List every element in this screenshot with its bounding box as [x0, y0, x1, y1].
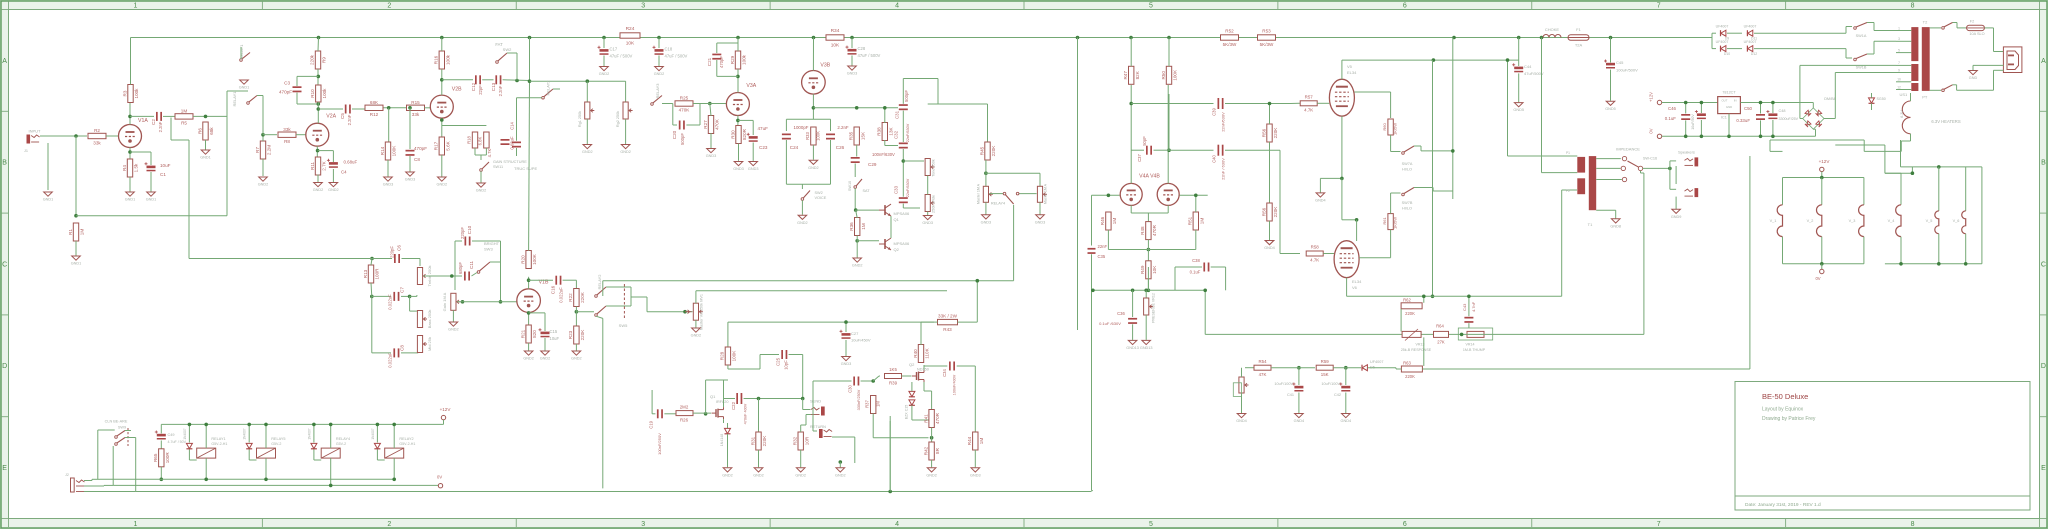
svg-text:V6: V6: [1352, 285, 1358, 290]
wire R44 drop: [974, 366, 976, 432]
svg-text:GND3: GND3: [970, 473, 981, 477]
svg-text:5: 5: [1149, 521, 1153, 528]
potentiometer MV1 MASTER VOL 1: [693, 303, 698, 320]
terminal 0V relays: [438, 484, 442, 488]
svg-text:GND2: GND2: [313, 188, 324, 192]
svg-text:R6: R6: [197, 128, 202, 134]
wire bridge minus: [1815, 129, 1817, 136]
resistor R4: [127, 159, 132, 177]
svg-text:V4A V4B: V4A V4B: [1139, 174, 1160, 180]
svg-text:220pF: 220pF: [390, 246, 395, 258]
wire impedance common to jacks: [1643, 167, 1670, 169]
svg-text:100K: 100K: [392, 145, 397, 157]
svg-text:CLN BE-ARE: CLN BE-ARE: [105, 420, 128, 424]
relay contact RELAY3: [651, 103, 654, 106]
diode D6 Q1 protection: [725, 428, 731, 433]
svg-text:R33: R33: [805, 131, 810, 139]
triode V4A: [1120, 183, 1142, 205]
svg-text:GND5: GND5: [1513, 108, 1524, 112]
svg-text:C49: C49: [168, 433, 175, 437]
potentiometer R31 GAIN2 A: [585, 102, 590, 119]
svg-text:C16: C16: [551, 285, 556, 294]
junction master wiper: [683, 310, 687, 314]
wire wiper arrow stub: [685, 311, 693, 313]
svg-text:R14: R14: [380, 146, 385, 155]
wire C8 to ground: [409, 156, 411, 172]
capacitor C11: [464, 272, 466, 281]
svg-text:100R: 100R: [375, 268, 380, 280]
wire V1A cathode down: [129, 148, 131, 160]
svg-text:220K: 220K: [991, 145, 996, 157]
svg-text:+12V: +12V: [1819, 159, 1831, 164]
resistor R65: [159, 449, 164, 467]
svg-text:R26: R26: [680, 418, 689, 423]
wire voice switch ground: [801, 200, 803, 215]
wire OT center tap B+: [1541, 38, 1543, 173]
wire send sleeve: [806, 414, 811, 416]
capacitor C26: [826, 134, 835, 136]
junction on B+ bus: [1452, 36, 1456, 40]
svg-text:Master 1M A: Master 1M A: [977, 183, 981, 204]
capacitor C20 loop: [672, 104, 674, 126]
potentiometer P4 MID: [417, 336, 422, 353]
wire relay RELAY2 to line: [393, 458, 395, 479]
svg-text:IMPEDANCE: IMPEDANCE: [1616, 147, 1640, 152]
svg-text:C33: C33: [894, 185, 899, 194]
resistor R17: [439, 137, 444, 155]
wire right rail down: [500, 252, 502, 302]
wire R33 bottom ground: [812, 145, 814, 160]
svg-text:RELAY5: RELAY5: [271, 437, 285, 441]
resistor R32: [798, 432, 803, 450]
resistor R60: [1388, 119, 1393, 135]
resistor R24 series bus: [620, 33, 640, 38]
wire bridge AC right: [1824, 118, 1835, 120]
wire NFB line to bias cluster: [1205, 333, 1461, 335]
junction treble node: [370, 257, 374, 261]
svg-text:R43: R43: [943, 327, 952, 332]
svg-text:RELAY1: RELAY1: [232, 91, 237, 107]
svg-text:4.7K: 4.7K: [1304, 108, 1313, 113]
capacitor C7: [393, 292, 395, 301]
wire R6 to ground: [205, 140, 207, 150]
wire C3 to plate node: [296, 93, 298, 104]
wire R58 to V6 grid: [1323, 253, 1334, 255]
wire B+ bus top: [131, 37, 620, 39]
wire R61 top to SW7B: [1390, 193, 1392, 214]
svg-text:A: A: [2, 58, 7, 65]
ground GND earth: [1969, 71, 1978, 75]
resistor R2: [88, 133, 106, 138]
resistor R41: [929, 410, 934, 428]
wire cathode to C4: [318, 150, 334, 152]
wire C21 bottom leg: [716, 60, 718, 76]
svg-text:R41: R41: [923, 414, 928, 423]
svg-text:R30: R30: [730, 130, 735, 139]
svg-text:SW7B: SW7B: [1402, 201, 1413, 205]
svg-text:GND2: GND2: [753, 473, 764, 477]
svg-text:GND: GND: [1726, 105, 1732, 109]
svg-text:+12V: +12V: [440, 407, 452, 412]
resistor R23: [574, 326, 579, 344]
svg-text:GND2: GND2: [808, 166, 819, 170]
svg-text:R49: R49: [1140, 265, 1145, 274]
capacitor C21 parallel loop: [717, 42, 738, 44]
svg-text:C40: C40: [1212, 154, 1217, 162]
wire R25 to V3A grid: [693, 103, 726, 105]
heater V_4: [1900, 173, 1902, 205]
capacitor C8 slope: [393, 348, 395, 357]
svg-text:4.7K: 4.7K: [487, 148, 492, 157]
junction gain wiper: [461, 300, 465, 304]
svg-text:RELAY2: RELAY2: [399, 437, 413, 441]
wire C43 bottom to NFB row: [1468, 323, 1470, 328]
wire clamp ground: [856, 241, 858, 258]
wire SW7A to screen rail: [1414, 145, 1421, 147]
svg-text:GND: GND: [1969, 76, 1978, 80]
wire F2 to IEC: [1985, 27, 1994, 29]
svg-text:330nF/250V: 330nF/250V: [857, 389, 861, 410]
wire R37 node to R39: [873, 376, 879, 381]
svg-text:47uF: 47uF: [758, 126, 769, 131]
capacitor C1 electrolytic: [147, 166, 156, 169]
regulator IC1 7812: [1718, 97, 1741, 114]
wire plate node to C5: [318, 108, 343, 110]
relay contact RELAY1 upper: [240, 59, 243, 62]
ground GND9 speakers: [1672, 209, 1681, 213]
ground GND3 R14: [384, 177, 393, 181]
svg-text:1M: 1M: [80, 229, 85, 236]
wire diode row 2: [1712, 48, 1716, 50]
resistor R26: [676, 411, 693, 416]
wire group2 bottom left: [1885, 263, 1896, 265]
connector J2 footswitch: [71, 478, 75, 492]
svg-text:R10: R10: [310, 89, 315, 98]
wire presence pot ground: [1145, 315, 1147, 340]
svg-text:Q2: Q2: [909, 362, 915, 367]
resistor R43 33K 2W: [938, 319, 958, 324]
triode V3B: [802, 71, 826, 95]
junction C8 tap: [408, 106, 412, 110]
svg-text:T2: T2: [1923, 20, 1928, 25]
svg-text:3: 3: [641, 521, 645, 528]
wire C11 left: [455, 275, 462, 277]
wire V1B cathode: [528, 312, 530, 325]
junction R6 top: [204, 115, 208, 119]
svg-text:VR14: VR14: [1466, 343, 1475, 347]
wire send tip: [802, 399, 804, 410]
svg-text:R24: R24: [626, 26, 635, 32]
ground GND2 pot1: [583, 145, 592, 149]
junction clamp bottom: [855, 239, 859, 243]
junction R37 top: [871, 379, 875, 383]
svg-text:GND3: GND3: [748, 167, 759, 171]
wire C36 feed: [1132, 290, 1134, 317]
resistor R53 5K 3W: [1258, 35, 1276, 40]
relay RELAY1 coil: [197, 448, 216, 458]
svg-text:0.022uF: 0.022uF: [559, 287, 564, 303]
switch SW-C16 IMPEDANCE: [1622, 156, 1626, 160]
terminal 0V supply: [1657, 134, 1661, 138]
svg-text:C20: C20: [672, 130, 677, 139]
junction R1 bottom rail: [74, 214, 78, 218]
svg-text:2: 2: [387, 3, 391, 10]
wire relay rail: [161, 423, 443, 425]
wire D9 D11: [1727, 32, 1742, 34]
svg-text:R65: R65: [153, 453, 158, 462]
svg-text:4: 4: [895, 521, 899, 528]
svg-text:7: 7: [1657, 3, 1661, 10]
ground GND3 master2: [1036, 215, 1045, 219]
svg-text:2.2nF: 2.2nF: [837, 125, 849, 130]
capacitor C28 electrolytic: [851, 38, 853, 49]
ground GND4 screen divider: [1265, 241, 1274, 245]
svg-text:SW1A: SW1A: [1856, 34, 1867, 38]
junction plate run OT: [1432, 58, 1436, 62]
svg-text:2.7K: 2.7K: [322, 160, 327, 170]
svg-text:P2: P2: [1566, 189, 1570, 193]
svg-text:R31: R31: [750, 436, 755, 445]
transformer T2 secondary winding: [1911, 27, 1918, 61]
svg-text:GND3: GND3: [1035, 220, 1046, 224]
svg-text:Layout by Equinox: Layout by Equinox: [1762, 407, 1804, 413]
wire R62 left leg down: [1400, 309, 1402, 332]
terminal 0V heaters: [1820, 269, 1824, 273]
ground GND2 R21: [524, 351, 533, 355]
svg-text:C41: C41: [1287, 393, 1294, 397]
resistor R31: [756, 432, 761, 450]
svg-text:GND13: GND13: [1126, 346, 1139, 350]
svg-text:1N4148: 1N4148: [720, 434, 724, 447]
wire R5 to R6 node: [193, 115, 227, 117]
svg-text:10uF/450V: 10uF/450V: [851, 338, 871, 343]
resistor R63: [1401, 366, 1422, 372]
wire NFB from impedance selector: [1640, 171, 1642, 173]
svg-text:R60: R60: [1382, 123, 1387, 131]
svg-text:Rg1 250k: Rg1 250k: [578, 111, 582, 127]
junction tone2 tap: [902, 159, 906, 163]
svg-text:GND5: GND5: [1605, 107, 1616, 111]
svg-text:UF4007: UF4007: [1744, 25, 1757, 29]
wire SW5 out to master pot: [647, 311, 685, 313]
transformer T1 primary winding: [1577, 157, 1585, 173]
svg-text:GND2: GND2: [328, 188, 339, 192]
svg-text:+12V: +12V: [1649, 92, 1654, 102]
wire mute rail vertical: [226, 91, 228, 216]
wire SW3 to right rail: [490, 261, 501, 263]
wire R46 bottom: [1107, 230, 1109, 250]
ground GND3 R44: [971, 468, 980, 472]
svg-text:R48: R48: [1140, 226, 1145, 235]
wire heater group2 bottom rail: [1896, 263, 1982, 265]
svg-text:E: E: [2, 465, 7, 472]
svg-text:0.68uF: 0.68uF: [344, 160, 358, 165]
junction V4B out: [1167, 148, 1171, 152]
svg-text:C28: C28: [858, 46, 866, 51]
junction C13 line: [515, 79, 519, 83]
wire mute rail horizontal: [76, 215, 227, 217]
wire C6 to treble pot: [402, 258, 421, 260]
svg-text:GND2: GND2: [437, 183, 448, 187]
diode D13 surge: [1869, 98, 1875, 103]
svg-text:C32: C32: [894, 130, 899, 139]
svg-text:47K: 47K: [1259, 372, 1267, 377]
wire R45 top: [987, 104, 989, 142]
wire R31 drop: [758, 399, 760, 433]
svg-text:GND4: GND4: [1236, 419, 1247, 423]
svg-text:SW-C16: SW-C16: [1643, 157, 1657, 161]
wire OT primary top: [1508, 155, 1578, 157]
wire R14 drop: [388, 108, 390, 142]
capacitor C31: [899, 104, 908, 106]
svg-text:47uF/500V: 47uF/500V: [1524, 71, 1544, 76]
ground GND4 power cathodes: [1316, 193, 1325, 197]
svg-text:BE-50 Deluxe: BE-50 Deluxe: [1762, 392, 1808, 401]
svg-text:GND3: GND3: [841, 362, 852, 366]
potentiometer P2 TREBLE: [417, 268, 422, 285]
svg-text:R50: R50: [1161, 71, 1166, 80]
svg-text:100K: 100K: [816, 131, 821, 141]
svg-text:GND2: GND2: [523, 357, 534, 361]
wire R41 to R42: [931, 428, 933, 443]
triode V3A: [726, 93, 749, 116]
junction on B+ bus: [812, 36, 816, 40]
wire gain2 pot1 ground: [586, 119, 588, 144]
pentode V6 EL34: [1334, 241, 1359, 278]
svg-text:C44: C44: [1524, 64, 1532, 69]
relay SW5 contact upper: [595, 295, 598, 298]
svg-text:1M: 1M: [861, 223, 866, 230]
potentiometer tone2: [925, 159, 930, 176]
capacitor C10: [465, 237, 467, 246]
svg-text:2.2nF: 2.2nF: [347, 114, 352, 125]
svg-text:1M: 1M: [181, 109, 188, 114]
resistor R44: [973, 432, 978, 450]
transformer T2 primary winding: [1922, 27, 1930, 91]
svg-text:GND2: GND2: [926, 473, 937, 477]
wire V6 plate run to OT: [1347, 295, 1562, 297]
wire C2 to R5: [163, 115, 175, 117]
wire R36 top: [856, 210, 858, 218]
wire V5 cathode: [1341, 116, 1343, 178]
svg-text:GND3: GND3: [405, 178, 416, 182]
wire V4A plate: [1130, 85, 1132, 183]
capacitor C33: [899, 197, 908, 199]
wire SW8A to F2: [1953, 22, 1958, 24]
svg-text:15K: 15K: [1321, 372, 1329, 377]
capacitor C13: [495, 75, 497, 84]
svg-text:33k: 33k: [283, 127, 291, 132]
wire R23 to ground: [575, 344, 577, 351]
wire heater group1 top rail: [1783, 177, 1864, 179]
triode V1A: [119, 125, 142, 148]
wire PI grid line left: [1092, 194, 1120, 196]
wire tail rail left leg: [1091, 289, 1095, 293]
wire gain pot ground: [452, 310, 454, 322]
junction supply tap: [528, 79, 532, 83]
svg-text:C10: C10: [467, 225, 472, 234]
svg-text:J2: J2: [65, 473, 69, 477]
svg-text:Gain 1M A: Gain 1M A: [442, 292, 447, 311]
wire cathode to GND4: [1320, 177, 1342, 179]
svg-text:SW3: SW3: [484, 247, 493, 252]
svg-text:1M: 1M: [1112, 218, 1117, 225]
svg-text:GND2: GND2: [795, 473, 806, 477]
svg-text:1M-B THUMP: 1M-B THUMP: [1463, 348, 1486, 352]
capacitor C36: [1128, 318, 1137, 320]
ground GND1 C1: [147, 192, 156, 196]
wire C18 ground: [658, 56, 660, 67]
svg-text:82K: 82K: [1135, 70, 1140, 79]
svg-text:4.7nF: 4.7nF: [1471, 301, 1476, 312]
resistor R6: [203, 122, 208, 140]
svg-text:470R: 470R: [1152, 224, 1157, 236]
wire gate node up: [705, 380, 707, 414]
wire bus to R16: [441, 38, 443, 52]
wire cathode to C23: [738, 119, 753, 121]
connector IEC inlet X1: [2003, 47, 2022, 73]
svg-text:Speakers: Speakers: [1678, 150, 1695, 155]
capacitor C16: [555, 276, 557, 285]
fuse F2: [1967, 25, 1985, 30]
wire relay2b left stub: [517, 97, 542, 99]
svg-text:8: 8: [1911, 521, 1915, 528]
svg-text:B: B: [2041, 160, 2046, 167]
wire C17 ground: [603, 56, 605, 67]
wire +12V drop: [443, 420, 445, 425]
resistor R36: [855, 218, 860, 236]
svg-text:GND2: GND2: [691, 334, 702, 338]
wire group2 nest return 2: [1981, 263, 1983, 265]
wire R39 to Q2 gate: [902, 375, 912, 377]
wire R56 top: [1269, 104, 1271, 125]
wire bright rail to gain pot: [454, 276, 456, 290]
svg-text:R57: R57: [1305, 95, 1314, 100]
resistor R10: [316, 85, 321, 102]
wire R28 bottom to C25: [727, 365, 729, 369]
svg-text:0.022uF: 0.022uF: [388, 352, 393, 368]
diode D12 UF4007: [1748, 46, 1753, 52]
wire C43 top to plate run: [1468, 296, 1470, 316]
capacitor C35: [1088, 248, 1096, 250]
svg-text:5.6K: 5.6K: [445, 140, 450, 150]
wire R30 ground: [738, 144, 740, 161]
wire C15 ground: [544, 338, 546, 351]
transformer T1 secondary winding: [1589, 156, 1596, 210]
wire C45 ground: [1610, 70, 1612, 101]
wire IC1 out rail: [1740, 102, 1806, 104]
wire R38 top: [884, 108, 886, 123]
triode V1B: [517, 289, 541, 313]
svg-text:V_1: V_1: [1770, 219, 1777, 223]
wire V4 cathodes: [1130, 205, 1132, 213]
svg-text:C39: C39: [1212, 107, 1217, 115]
svg-text:C6: C6: [397, 245, 402, 251]
wire R38 bottom to C32: [884, 140, 886, 146]
capacitor C30: [853, 377, 855, 386]
capacitor C5: [345, 105, 347, 114]
svg-text:V_4: V_4: [1888, 219, 1895, 223]
capacitor C45 electrolytic: [1610, 38, 1612, 63]
junction V2B plate branch: [440, 78, 444, 82]
triode V4B: [1157, 183, 1179, 205]
wire winding bottom run: [1910, 134, 1912, 141]
svg-text:R34: R34: [831, 28, 840, 34]
junction on B+ bus: [528, 36, 532, 40]
svg-text:R38: R38: [877, 127, 882, 136]
svg-text:SW9: SW9: [118, 426, 126, 430]
svg-text:GND2: GND2: [571, 357, 582, 361]
